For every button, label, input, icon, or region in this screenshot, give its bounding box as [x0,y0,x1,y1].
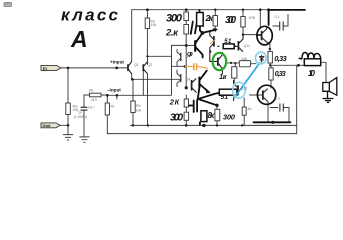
svg-text:RF: RF [111,105,116,109]
svg-text:Gnd: Gnd [43,123,52,128]
svg-text:1к: 1к [219,72,228,81]
svg-text:класс: класс [61,6,119,25]
svg-text:(1,000u): (1,000u) [74,115,87,119]
svg-text:110: 110 [91,98,97,102]
svg-text:Q1: Q1 [134,63,139,67]
svg-text:4b: 4b [248,107,252,111]
svg-text:10k: 10k [136,109,142,113]
svg-text:0,33: 0,33 [274,54,287,63]
svg-text:In: In [43,66,47,71]
svg-text:Q12: Q12 [241,87,248,91]
svg-text:Q4: Q4 [186,77,191,81]
svg-text:2.к: 2.к [165,28,179,39]
svg-text:628: 628 [5,2,12,7]
svg-text:8х: 8х [208,111,216,120]
svg-text:1P8: 1P8 [249,16,255,20]
svg-text:Q2: Q2 [148,63,153,67]
svg-text:Q9: Q9 [187,52,193,58]
svg-text:CB *: CB * [88,106,95,110]
svg-text:300: 300 [223,112,236,121]
svg-text:0,1: 0,1 [275,97,280,101]
svg-text:300: 300 [170,113,183,124]
svg-text:2К: 2К [169,98,181,107]
svg-text:R2: R2 [136,104,141,108]
svg-text:51: 51 [221,94,229,101]
svg-text:0,1: 0,1 [275,15,280,19]
svg-text:14b: 14b [241,57,247,61]
svg-text:1n: 1n [78,111,82,115]
svg-text:10: 10 [308,69,316,78]
svg-text:300: 300 [166,13,183,25]
svg-text:RB: RB [89,89,94,93]
svg-text:+Input: +Input [110,59,124,64]
svg-text:Q11: Q11 [244,44,251,48]
svg-text:51: 51 [224,39,232,45]
svg-text:10k: 10k [151,23,157,27]
svg-text:+: + [209,50,212,56]
svg-text:А: А [70,26,88,52]
svg-text:300: 300 [225,15,236,26]
svg-text:–Input: –Input [107,88,121,93]
svg-text:2к: 2к [205,13,214,23]
svg-text:0,33: 0,33 [275,71,286,78]
